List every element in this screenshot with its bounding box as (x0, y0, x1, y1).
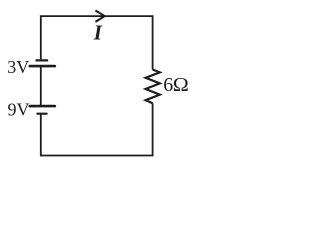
wire: top side with upper-left and upper-right verticals (41, 16, 153, 70)
svg-text:Ω: Ω (173, 73, 189, 96)
svg-text:I: I (93, 21, 103, 45)
resistor R (6 ohm) zigzag (146, 70, 160, 104)
svg-text:3V: 3V (7, 57, 29, 77)
battery B1 (3V) long plate (positive, bottom) (30, 65, 55, 68)
svg-text:6: 6 (163, 74, 173, 96)
current arrow on top wire (95, 11, 104, 22)
wire: left middle segment between batteries (40, 66, 42, 106)
svg-text:9V: 9V (8, 100, 30, 120)
battery B2 (9V) long plate (positive, top) (30, 105, 55, 108)
battery B1 (3V) short plate (negative, top) (36, 59, 47, 61)
wire: bottom side with lower-left and lower-right verticals (41, 103, 153, 155)
battery B2 (9V) short plate (negative, bottom) (37, 113, 46, 115)
